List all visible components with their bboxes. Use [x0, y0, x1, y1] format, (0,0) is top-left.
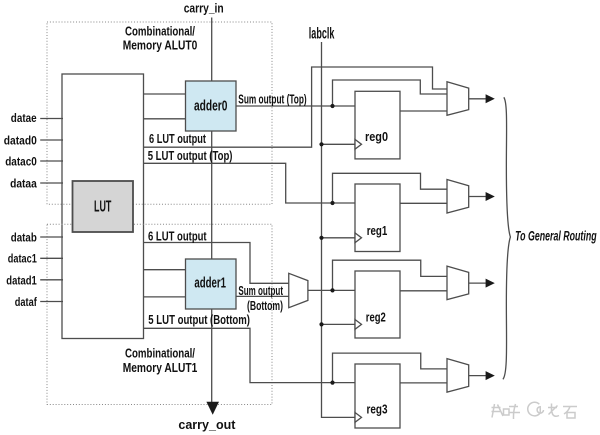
- svg-text:datac1: datac1: [8, 252, 37, 266]
- svg-text:Combinational/: Combinational/: [125, 24, 195, 39]
- svg-text:(Bottom): (Bottom): [247, 299, 283, 313]
- svg-text:5 LUT output (Top): 5 LUT output (Top): [148, 149, 233, 163]
- svg-text:dataf: dataf: [15, 295, 38, 309]
- svg-text:carry_in: carry_in: [184, 0, 224, 15]
- svg-text:dataa: dataa: [10, 176, 37, 190]
- svg-text:datae: datae: [11, 111, 37, 125]
- svg-text:To General Routing: To General Routing: [515, 229, 597, 244]
- svg-text:carry_out: carry_out: [178, 417, 236, 432]
- svg-text:datab: datab: [11, 230, 37, 244]
- svg-text:reg3: reg3: [367, 402, 388, 416]
- svg-text:labclk: labclk: [309, 26, 335, 43]
- svg-text:reg1: reg1: [367, 224, 388, 238]
- svg-text:LUT: LUT: [94, 199, 112, 216]
- svg-text:Sum output: Sum output: [238, 284, 283, 298]
- svg-text:datac0: datac0: [5, 155, 37, 169]
- svg-text:adder0: adder0: [194, 97, 228, 114]
- svg-text:reg0: reg0: [365, 130, 388, 144]
- svg-text:Memory ALUT0: Memory ALUT0: [123, 37, 198, 52]
- svg-text:datad0: datad0: [4, 133, 37, 147]
- svg-text:Memory ALUT1: Memory ALUT1: [123, 360, 198, 375]
- svg-text:Sum output (Top): Sum output (Top): [238, 93, 306, 107]
- svg-text:6 LUT output: 6 LUT output: [149, 132, 207, 146]
- svg-text:Combinational/: Combinational/: [125, 345, 195, 360]
- svg-text:adder1: adder1: [194, 274, 226, 291]
- svg-text:reg2: reg2: [366, 310, 386, 324]
- svg-text:5 LUT output (Bottom): 5 LUT output (Bottom): [148, 313, 250, 327]
- svg-text:datad1: datad1: [6, 273, 37, 287]
- svg-text:6 LUT output: 6 LUT output: [148, 229, 207, 243]
